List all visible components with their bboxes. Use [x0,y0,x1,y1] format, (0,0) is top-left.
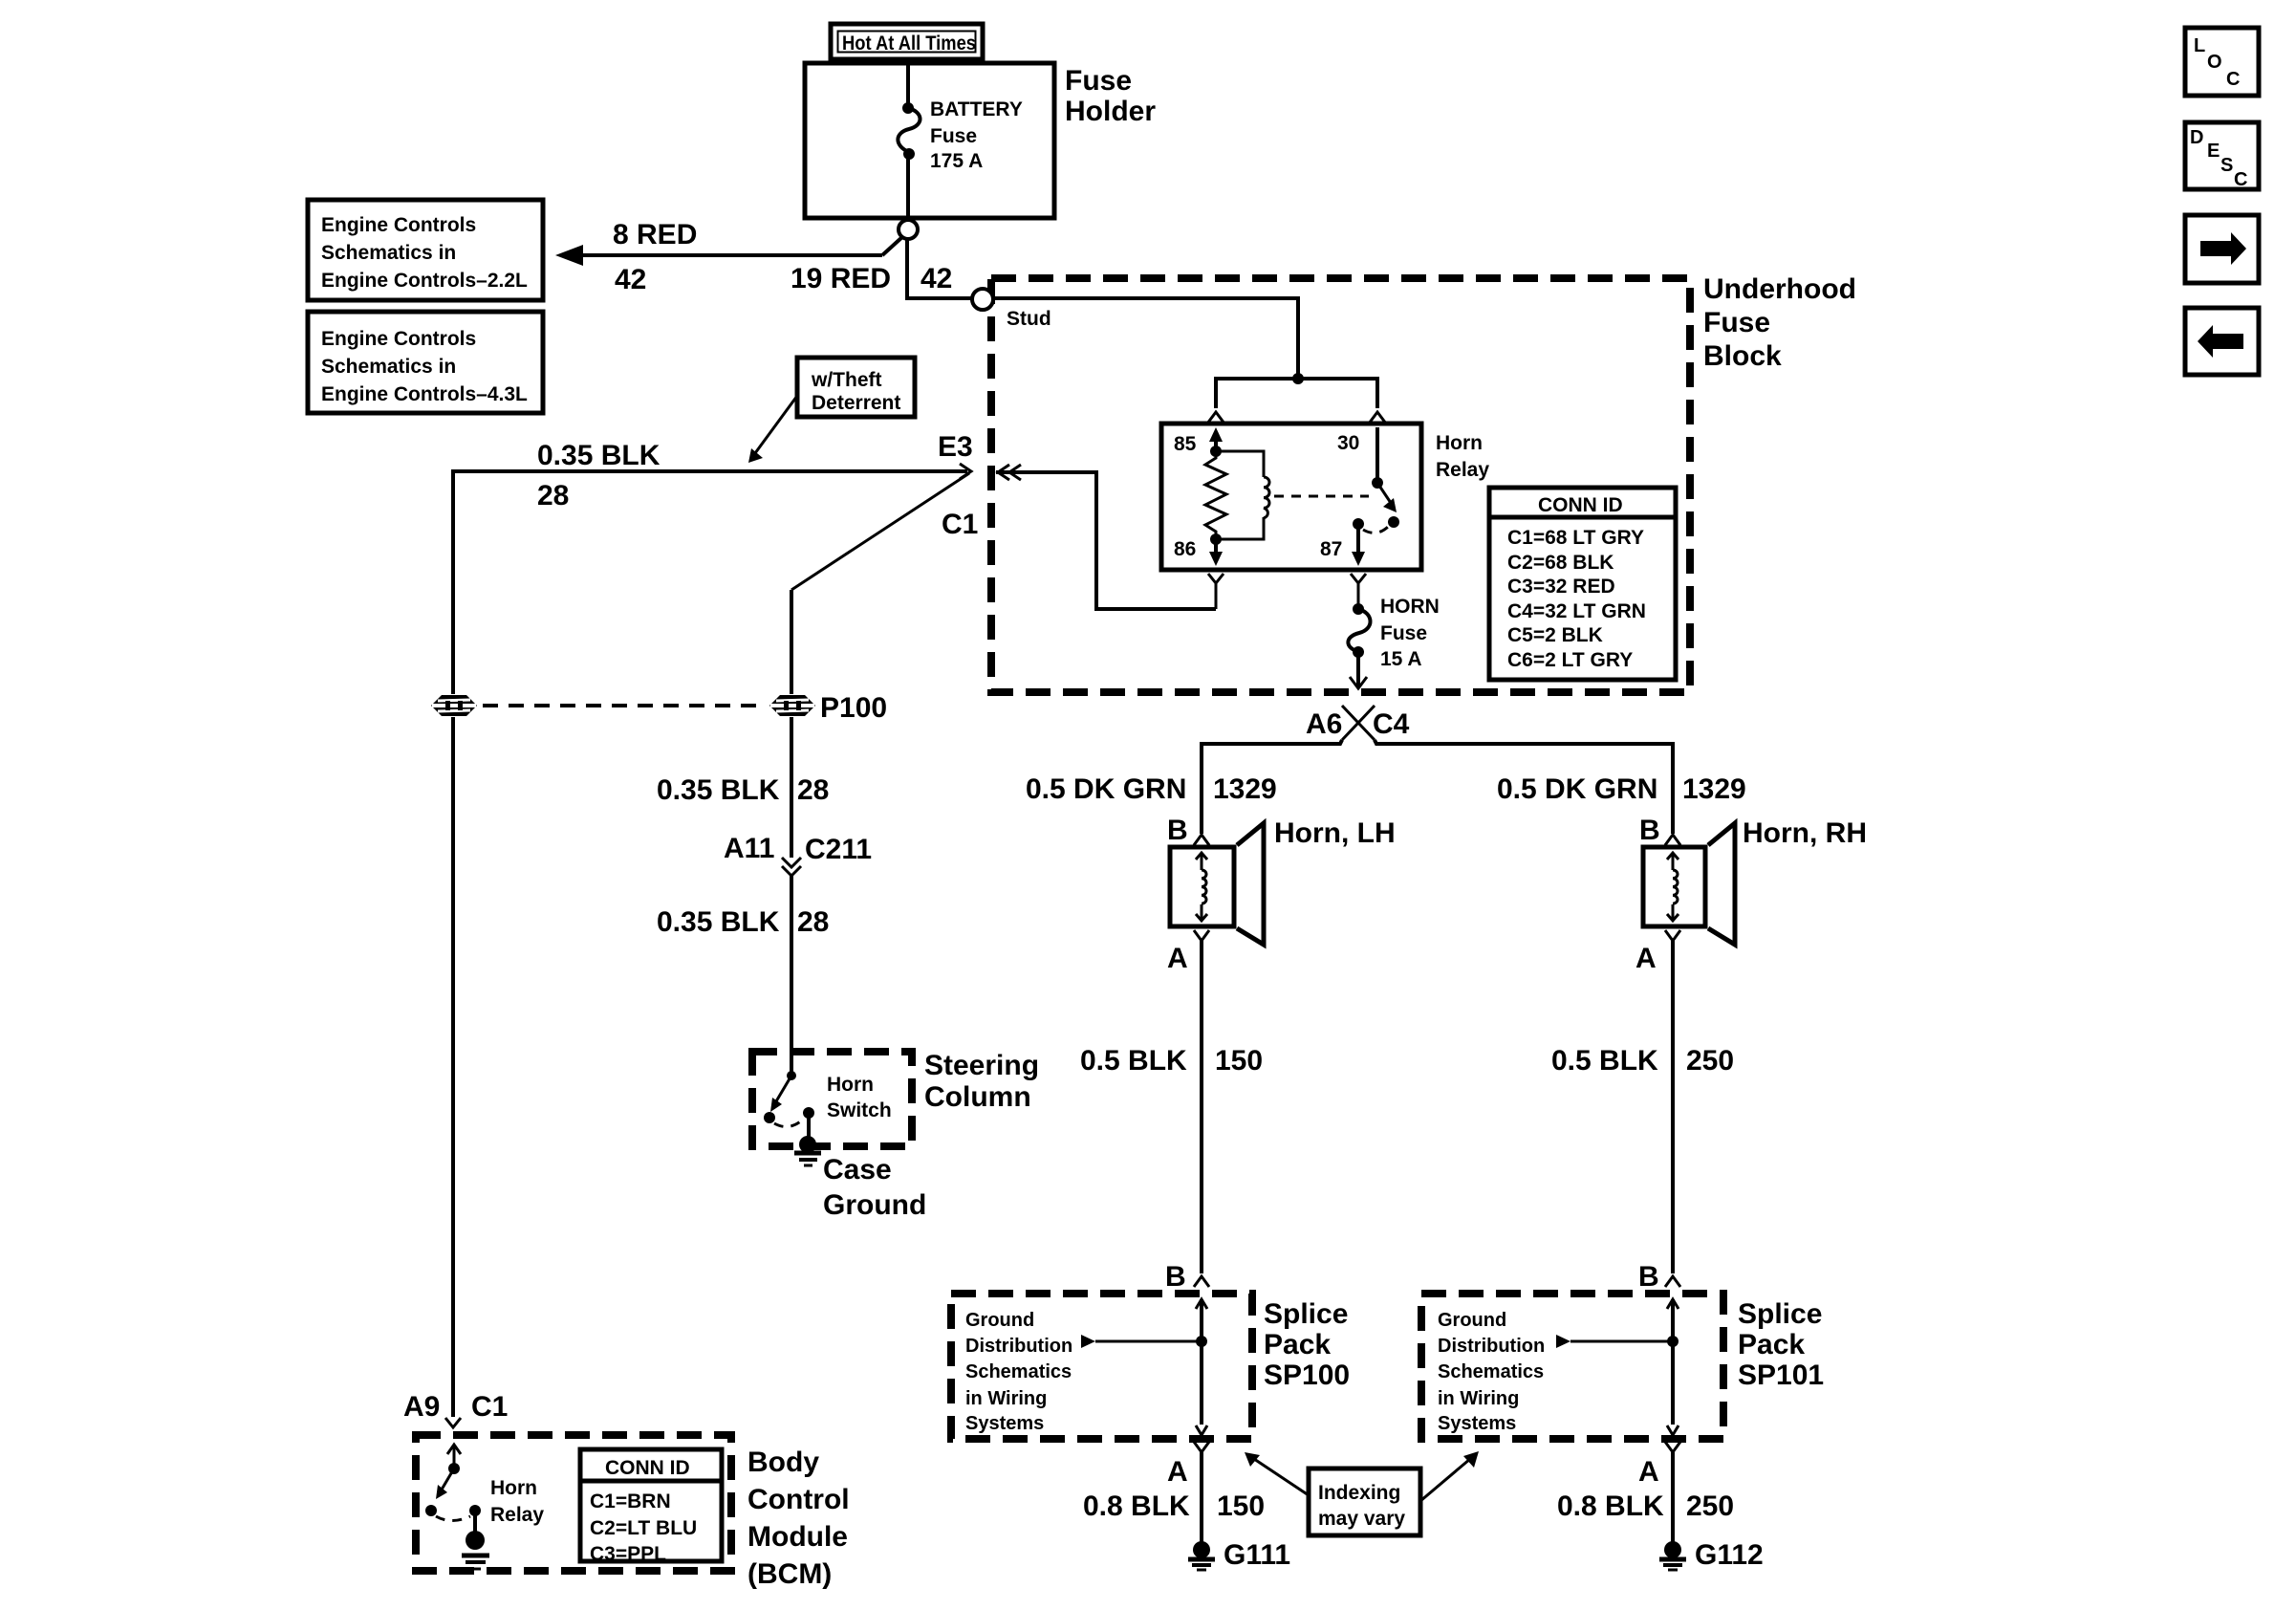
junction relay feed [1292,373,1304,384]
svg-text:C211: C211 [805,834,872,865]
node A9 C1 [403,1391,508,1423]
svg-text:15 A: 15 A [1380,648,1422,670]
svg-text:Horn, RH: Horn, RH [1743,817,1867,849]
svg-text:Distribution: Distribution [1438,1336,1545,1357]
svg-text:A11: A11 [724,833,774,864]
svg-text:C2=68 BLK: C2=68 BLK [1507,552,1614,574]
svg-text:C3=PPL: C3=PPL [590,1543,666,1565]
svg-text:Pack: Pack [1264,1329,1331,1360]
svg-text:L: L [2194,35,2205,56]
wire 0.35 BLK 28 lower [657,876,829,1076]
svg-text:Systems: Systems [1438,1413,1516,1434]
pin 86 [1174,538,1223,566]
svg-text:Distribution: Distribution [965,1336,1072,1357]
svg-text:Ground: Ground [823,1189,926,1221]
svg-text:C1: C1 [471,1391,508,1423]
BCM dashed box [416,1435,731,1571]
connector A6 C4 [1306,706,1410,740]
svg-text:Relay: Relay [1436,459,1489,481]
label Steering Column [924,1050,1039,1113]
svg-text:Case: Case [823,1154,892,1186]
relay actuation dashed link [1274,495,1369,498]
svg-text:Relay: Relay [490,1504,544,1526]
svg-text:B: B [1165,1261,1186,1293]
svg-text:Fuse: Fuse [1380,622,1427,644]
arrow indexing right [1420,1451,1479,1501]
wire 0.35 BLK horizontal [453,440,967,694]
horn LH [1170,817,1396,945]
svg-text:Indexing: Indexing [1318,1482,1400,1504]
label Underhood Fuse Block [1703,273,1856,372]
wire horn feed bus [1202,740,1342,834]
BCM internal ground [462,1511,489,1569]
connector chevron horn RH pin A [1665,930,1680,941]
label box Hot At All Times [831,24,983,59]
icon box arrow left [2185,308,2259,375]
wire 0.8 BLK 150 [1083,1452,1265,1542]
connector Y pin87 bottom [1351,574,1366,609]
svg-text:Control: Control [747,1484,850,1515]
svg-text:0.5 DK GRN: 0.5 DK GRN [1497,773,1657,805]
svg-text:A: A [1167,943,1188,974]
svg-text:HORN: HORN [1380,596,1440,618]
switch dashed arc relay [1363,527,1388,533]
svg-text:Horn: Horn [1436,432,1483,454]
connector Y pin86 bottom [1208,574,1224,609]
svg-text:30: 30 [1337,432,1359,454]
fuse holder box [805,63,1054,218]
svg-text:0.8 BLK: 0.8 BLK [1557,1490,1664,1522]
icon box DESC [2185,122,2259,190]
svg-text:Column: Column [924,1081,1031,1113]
horn switch [764,1071,892,1127]
svg-text:Holder: Holder [1065,96,1156,127]
svg-text:O: O [2207,52,2222,73]
svg-text:Engine Controls–2.2L: Engine Controls–2.2L [321,270,528,292]
svg-text:Horn, LH: Horn, LH [1274,817,1396,849]
svg-text:87: 87 [1320,538,1342,560]
label 0.5 DK GRN 1329 right [1497,773,1746,805]
svg-text:P100: P100 [820,692,887,724]
svg-text:in Wiring: in Wiring [1438,1388,1519,1409]
label Splice Pack SP100 [1264,1298,1350,1391]
svg-text:G111: G111 [1224,1539,1290,1571]
connector inline pass-through left [431,695,477,716]
svg-text:Pack: Pack [1738,1329,1805,1360]
svg-text:A: A [1167,1456,1188,1488]
svg-text:C3=32 RED: C3=32 RED [1507,576,1615,598]
horn RH [1643,817,1867,945]
arrow indexing left [1245,1452,1309,1495]
icon box LOC [2185,28,2259,96]
svg-text:G112: G112 [1695,1539,1764,1571]
wire 0.8 BLK 250 [1557,1452,1734,1542]
svg-text:Engine Controls: Engine Controls [321,214,476,236]
svg-text:175 A: 175 A [930,150,983,172]
node pin85 [1210,446,1222,457]
connector inline A11 C211 [724,833,872,876]
splice SP101 internals [1438,1299,1679,1435]
wire battery fuse bottom [906,154,910,219]
svg-text:Schematics in: Schematics in [321,356,456,378]
fuse HORN 15A [1348,596,1439,670]
connector chevron pin85 top [1207,412,1224,424]
svg-text:Stud: Stud [1007,308,1051,330]
svg-text:(BCM): (BCM) [747,1558,832,1590]
svg-text:C: C [2234,169,2247,190]
svg-text:Splice: Splice [1264,1298,1348,1330]
icon box arrow right [2185,215,2259,283]
svg-text:Fuse: Fuse [1703,307,1770,338]
relay coil winding [1216,451,1269,539]
svg-text:150: 150 [1215,1045,1263,1077]
svg-text:28: 28 [537,480,569,511]
svg-text:28: 28 [797,774,829,806]
svg-text:250: 250 [1686,1490,1734,1522]
svg-text:may vary: may vary [1318,1508,1405,1530]
wire 0.5 BLK 150 [1080,941,1263,1273]
svg-text:Fuse: Fuse [1065,65,1132,97]
svg-text:Switch: Switch [827,1099,892,1121]
svg-text:Splice: Splice [1738,1298,1822,1330]
splice SP100 internals [965,1299,1207,1435]
relay coil resistor [1205,451,1226,539]
label 0.5 DK GRN 1329 left [1026,773,1277,805]
connector chevron horn LH pin B [1194,835,1209,845]
arrow w/Theft pointer [748,396,797,463]
svg-text:in Wiring: in Wiring [965,1388,1047,1409]
svg-text:8 RED: 8 RED [613,219,697,250]
connector half E3 outside [960,464,971,479]
pin 30 switch [1337,427,1399,528]
svg-text:Deterrent: Deterrent [812,392,900,414]
label Horn Relay [1436,432,1489,481]
svg-text:1329: 1329 [1213,773,1277,805]
svg-text:D: D [2190,127,2203,148]
svg-text:250: 250 [1686,1045,1734,1077]
svg-text:42: 42 [615,264,646,295]
engine controls box 2.2L [308,200,543,300]
svg-text:E: E [2207,141,2220,162]
wire horn fuse out [1350,652,1367,688]
wire pin86 to E3 [996,465,1216,609]
svg-text:0.35 BLK: 0.35 BLK [657,774,780,806]
svg-text:Block: Block [1703,340,1782,372]
svg-text:Underhood: Underhood [1703,273,1856,305]
engine controls box 4.3L [308,312,543,413]
pin 85 [1174,427,1223,455]
wire 8 RED [555,219,903,295]
label box w/Theft Deterrent [797,358,915,417]
svg-text:0.5 BLK: 0.5 BLK [1551,1045,1658,1077]
conn id table BCM [580,1449,722,1565]
connector chevron pin30 top [1369,412,1386,424]
svg-text:0.5 BLK: 0.5 BLK [1080,1045,1187,1077]
underhood fuse block dashed box [991,278,1690,692]
svg-text:Steering: Steering [924,1050,1039,1081]
svg-text:C2=LT BLU: C2=LT BLU [590,1517,697,1539]
wire horn feed bus right [1375,740,1673,834]
steering column dashed box [752,1052,912,1146]
svg-text:C4=32 LT GRN: C4=32 LT GRN [1507,600,1646,622]
svg-text:28: 28 [797,906,829,938]
svg-text:19 RED: 19 RED [791,263,891,294]
svg-text:C1=BRN: C1=BRN [590,1490,671,1512]
svg-text:A: A [1638,1456,1659,1488]
svg-text:Horn: Horn [827,1074,874,1096]
svg-text:Schematics in: Schematics in [321,242,456,264]
svg-text:C1: C1 [942,509,978,540]
wire relay feed split [1216,379,1377,408]
svg-text:C5=2 BLK: C5=2 BLK [1507,624,1603,646]
connector inline P100 [769,692,887,724]
svg-text:Ground: Ground [1438,1310,1506,1331]
svg-text:Body: Body [747,1447,819,1478]
conn id table underhood [1489,488,1676,680]
connector chevron BCM pin [445,1418,461,1427]
svg-text:42: 42 [921,263,952,294]
splice pack SP101 dashed box [1421,1294,1723,1439]
svg-text:E3: E3 [938,431,973,463]
svg-text:A: A [1635,943,1657,974]
splice pack SP100 dashed box [951,1294,1252,1439]
svg-text:0.35 BLK: 0.35 BLK [657,906,780,938]
connector chevron splice RH pin A [1665,1442,1680,1452]
svg-text:85: 85 [1174,433,1197,455]
svg-text:1329: 1329 [1682,773,1746,805]
svg-text:Engine Controls: Engine Controls [321,328,476,350]
connector chevron splice LH pin A [1194,1442,1209,1452]
svg-text:B: B [1639,815,1660,846]
svg-text:Fuse: Fuse [930,125,977,147]
dashed connector link [483,704,762,707]
svg-text:Schematics: Schematics [965,1361,1072,1382]
fuse F1 BATTERY 175A [898,98,1022,172]
svg-text:Hot At All Times: Hot At All Times [842,33,976,54]
wire 0.5 BLK 250 [1551,941,1734,1273]
label Body Control Module (BCM) [747,1447,850,1590]
horn relay box [1161,424,1421,570]
svg-text:0.35 BLK: 0.35 BLK [537,440,661,471]
svg-text:B: B [1167,815,1188,846]
svg-text:B: B [1638,1261,1659,1293]
wire 19 RED [791,239,971,298]
svg-text:BATTERY: BATTERY [930,98,1023,120]
case ground [794,1113,926,1221]
svg-text:Engine Controls–4.3L: Engine Controls–4.3L [321,383,528,405]
ground G112 [1659,1539,1764,1571]
connector chevron splice LH pin B [1194,1276,1209,1287]
wire battery fuse top [906,65,910,106]
label Splice Pack SP101 [1738,1298,1824,1391]
svg-text:150: 150 [1217,1490,1265,1522]
pin 87 [1320,518,1365,566]
wire stud to relay feed [993,298,1298,379]
svg-text:A6: A6 [1306,708,1342,740]
BCM horn relay switch [425,1445,544,1526]
svg-text:Ground: Ground [965,1310,1034,1331]
wire P100 to steering column [657,717,829,858]
connector chevron horn RH pin B [1665,835,1680,845]
connector chevron splice RH pin B [1665,1276,1680,1287]
ground G111 [1188,1539,1290,1571]
svg-text:Horn: Horn [490,1477,537,1499]
svg-text:S: S [2220,155,2233,176]
svg-text:86: 86 [1174,538,1196,560]
label box Indexing may vary [1309,1469,1420,1535]
svg-text:Schematics: Schematics [1438,1361,1544,1382]
svg-text:Systems: Systems [965,1413,1044,1434]
svg-text:C6=2 LT GRY: C6=2 LT GRY [1507,649,1633,671]
svg-text:0.5 DK GRN: 0.5 DK GRN [1026,773,1186,805]
svg-text:C1=68 LT GRY: C1=68 LT GRY [1507,527,1644,549]
svg-text:w/Theft: w/Theft [811,369,882,391]
svg-text:Module: Module [747,1521,848,1553]
svg-text:0.8 BLK: 0.8 BLK [1083,1490,1190,1522]
svg-text:C4: C4 [1373,708,1410,740]
svg-text:A9: A9 [403,1391,440,1423]
svg-text:SP101: SP101 [1738,1360,1824,1391]
node pin86 [1210,533,1222,545]
svg-text:CONN ID: CONN ID [1538,494,1623,516]
stud terminal [972,289,1051,330]
wire E3 diagonal to P100 [791,473,969,694]
svg-text:C: C [2226,69,2240,90]
svg-text:CONN ID: CONN ID [605,1457,690,1479]
svg-text:SP100: SP100 [1264,1360,1350,1391]
wire left drop lower [451,717,455,1417]
connector chevron horn LH pin A [1194,930,1209,941]
terminal ring below fuse holder [899,220,918,239]
